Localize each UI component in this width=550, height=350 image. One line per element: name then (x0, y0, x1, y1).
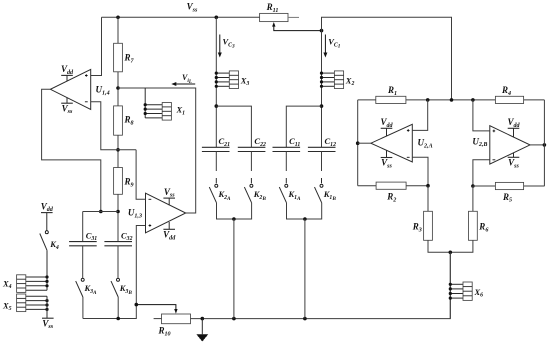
wire U1,4 + input from rail (91, 17, 102, 75)
node C21/C22 junction (215, 104, 219, 108)
wire U2,A feedback column (357, 100, 359, 186)
wire V_ss top rail (102, 16, 260, 18)
ground (196, 319, 208, 342)
wire K2,B top lead (250, 178, 252, 183)
wire R9 to C32 node (117, 194, 119, 241)
wire V_dd to K4 (46, 213, 48, 231)
wire X6 column (449, 252, 451, 318)
wire K2,A top lead (215, 178, 217, 183)
wire K1,B top lead (321, 178, 323, 183)
wire bottom rail (191, 252, 451, 318)
node K3,B rail junction (116, 317, 120, 321)
wire C22 bottom lead (250, 152, 252, 172)
annotation V_iL arrow (171, 73, 195, 86)
power V_dd of U2,A (380, 117, 393, 136)
wire U2,B + input (473, 100, 490, 131)
switch K2,B (244, 184, 266, 203)
wire C11 bottom lead (285, 152, 287, 172)
connector X6 (449, 282, 483, 300)
wire wiper node to top-right rail (322, 17, 452, 100)
node U2,A + input junction (426, 98, 430, 102)
wire X5 to V_ss (46, 296, 48, 318)
wire R1-R4 line (358, 99, 545, 101)
wire R8-R9 (117, 135, 119, 167)
node R10 wiper tap (135, 303, 139, 307)
wire U2,B output (530, 144, 544, 146)
wire U2,B feedback column (543, 100, 545, 186)
capacitor C22 (238, 136, 266, 152)
capacitor C32 (104, 230, 132, 246)
power V_ss of U1,4 (61, 97, 73, 115)
wire R6 top lead (472, 186, 474, 211)
power V_ss of U2,B (508, 153, 520, 170)
capacitor C31 (69, 230, 97, 246)
resistor R9 (114, 168, 134, 195)
wire U1,3 - input (136, 150, 145, 200)
wire R5 line (473, 185, 545, 187)
connector X4 (2, 275, 49, 293)
switch K1,A (279, 184, 301, 203)
power V_dd (K4 chain) (41, 201, 54, 213)
resistor R3 (412, 211, 433, 240)
wire K1 rail to bottom rail (304, 219, 306, 319)
power V_ss of U1,3 (163, 187, 175, 205)
wire K1 pivot rail (287, 203, 322, 219)
resistor R7 (114, 43, 135, 72)
resistor R4 (495, 85, 523, 104)
op-amp U1,3 (128, 193, 186, 233)
annotation V_C3 (218, 35, 235, 58)
wire K2 pivot rail (217, 203, 252, 219)
power V_ss (X5 chain) (42, 318, 54, 330)
connector X2 (320, 71, 355, 89)
wire U1,4 output to C31/C32 rail (42, 89, 101, 211)
op-amp U1,4 (50, 69, 109, 109)
wire K3,A to bottom rail (82, 297, 84, 319)
wire K4 to X4 pins (46, 250, 48, 290)
switch K1,B (315, 184, 337, 203)
power V_dd of U1,4 (61, 64, 74, 81)
wire C22 top lead (216, 106, 251, 147)
switch K3,A (76, 278, 97, 297)
wire U2,B - input (473, 160, 490, 186)
wire R3-R6 tie (428, 240, 473, 252)
wire bottom-left rail / U1,3 + input (83, 226, 146, 319)
node K1 rail center (303, 217, 307, 221)
resistor R2 (376, 182, 406, 203)
node R7/R8 junction (116, 86, 120, 90)
wire C11 top lead (286, 106, 321, 147)
connector X1 (144, 103, 186, 121)
wire K1,A top lead (285, 178, 287, 183)
wire X1 stub (144, 88, 146, 118)
node U2,B + input junction (471, 98, 475, 102)
resistor R8 (114, 106, 134, 135)
node K2 rail center (232, 217, 236, 221)
connector X3 (215, 71, 250, 89)
wire C31-C32 top rail (83, 211, 118, 213)
wire C32 bottom lead (117, 246, 119, 279)
wire C31 bottom lead (82, 246, 84, 279)
op-amp U2,B (472, 126, 530, 164)
node K1 rail junction on bottom rail (303, 317, 307, 321)
connector X5 (2, 294, 49, 312)
switch K4 (40, 231, 59, 251)
node U2,B - input / R5 junction (471, 184, 475, 188)
capacitor C12 (308, 136, 336, 152)
node C11/C12 junction (320, 104, 324, 108)
wire U1,4 - input (91, 102, 136, 150)
wire R2 line (358, 185, 428, 187)
potentiometer R11 (260, 2, 322, 31)
wire R7/R8 node to X1 and U1,3 output (118, 88, 196, 213)
op-amp U2,A (371, 124, 433, 162)
wire X3 column (rail to C21) (215, 17, 217, 147)
wire U2,A - input (412, 157, 428, 185)
switch K3,B (111, 278, 132, 297)
node K2 rail junction on bottom rail (232, 317, 236, 321)
wire R7-R8 (117, 72, 119, 106)
annotation V_C1 (323, 35, 340, 58)
node U1,4 output junction (99, 210, 103, 214)
wire C21 bottom lead (215, 152, 217, 172)
wire rail to R7 (117, 17, 119, 43)
node X6 tie junction (449, 251, 453, 255)
resistor R1 (376, 85, 406, 104)
power V_ss of U2,A (381, 150, 393, 169)
wire X2 column (wiper node to C12) (321, 31, 323, 148)
node R2/R3 junction (426, 184, 430, 188)
capacitor C11 (273, 136, 301, 152)
node ground junction (201, 317, 205, 321)
wire R3 top lead (427, 186, 429, 212)
switch K2,A (209, 184, 231, 203)
wire U2,A + input (412, 100, 427, 130)
wire K2 rail to bottom rail (233, 219, 235, 319)
node U2,B output junction (543, 143, 547, 147)
node C31/C32 rail junction (116, 210, 120, 214)
node top-rail drop junction (450, 98, 454, 102)
wire C12 bottom lead (321, 152, 323, 172)
node R11 wiper junction (320, 29, 324, 33)
node U2,A output junction (356, 141, 360, 145)
capacitor C21 (202, 136, 230, 152)
wire K3,B to bottom rail (117, 297, 119, 319)
node V_ss rail junctions (116, 15, 120, 19)
wire U2,A output (358, 142, 371, 144)
node R8/R9 feedback junction (116, 148, 120, 152)
power V_dd of U2,B (507, 117, 520, 137)
resistor R5 (495, 182, 523, 203)
resistor R6 (469, 211, 490, 240)
potentiometer R10 (136, 305, 190, 338)
power V_dd of U1,3 (163, 222, 176, 241)
wire C31 top lead (82, 212, 84, 242)
